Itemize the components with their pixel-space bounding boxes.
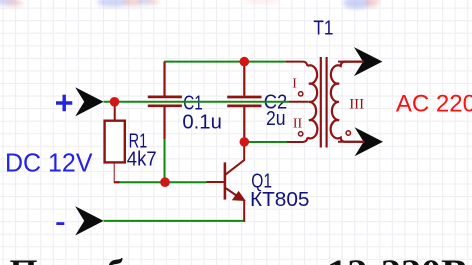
capacitor C2	[227, 62, 261, 142]
transformer core	[321, 57, 327, 148]
svg-text:T1: T1	[313, 17, 333, 39]
junction dot input plus	[110, 97, 120, 107]
junction dot top rail C2	[240, 57, 250, 67]
output arrow bottom	[355, 127, 383, 156]
top cropped watermark smudge mid-left	[97, 0, 160, 7]
svg-text:AC 220V: AC 220V	[396, 90, 472, 117]
svg-text:II: II	[293, 117, 303, 132]
plus input arrow	[75, 87, 103, 116]
wire: bottom (minus) rail	[104, 220, 244, 222]
transistor Q1	[207, 142, 245, 222]
wire: base node horizontal	[115, 181, 207, 183]
junction dot collector node	[240, 137, 250, 147]
polarity dot winding III	[346, 131, 350, 135]
svg-text:I: I	[292, 76, 297, 91]
junction dot base node	[160, 177, 170, 187]
wire red: middle rail pin to transformer	[289, 101, 309, 103]
polarity dot winding II	[299, 132, 303, 136]
resistor R1	[105, 102, 125, 183]
svg-text:Преобразователь: Преобразователь	[10, 252, 344, 265]
wire: middle horizontal rail (+12V node)	[104, 101, 289, 103]
top cropped watermark smudge left	[0, 0, 23, 7]
svg-text:КТ805: КТ805	[250, 189, 310, 211]
svg-text:III: III	[349, 97, 364, 113]
svg-text:4k7: 4k7	[127, 148, 157, 170]
wire red: top rail pin to transformer	[286, 62, 307, 66]
svg-text:0.1u: 0.1u	[182, 111, 222, 133]
svg-text:DC 12V: DC 12V	[5, 148, 93, 178]
wire: C1 bottom to base node vertical	[164, 139, 166, 182]
transformer T1 primary winding II	[307, 102, 317, 139]
wire: top rail	[164, 61, 286, 63]
svg-text:2u: 2u	[266, 108, 286, 130]
transistor Q1 emitter arrowhead	[232, 191, 246, 201]
top cropped watermark smudge center	[244, 0, 280, 4]
wire red: collector node wire to transformer	[287, 138, 307, 142]
minus input arrow	[75, 206, 103, 235]
top cropped watermark smudge right	[343, 0, 379, 9]
wire red: winding III top lead	[338, 61, 364, 63]
transformer T1 secondary winding III	[331, 62, 365, 142]
svg-text:12-220В: 12-220В	[327, 252, 468, 265]
minus terminal label	[56, 222, 64, 225]
output arrow top	[354, 47, 382, 76]
plus terminal label	[56, 95, 72, 112]
wire red: winding III bottom lead	[338, 141, 365, 143]
wire: collector node to winding II bottom	[244, 141, 287, 143]
transformer T1 primary winding I	[307, 65, 317, 102]
polarity dot winding I	[299, 92, 303, 96]
capacitor C1	[148, 62, 182, 140]
